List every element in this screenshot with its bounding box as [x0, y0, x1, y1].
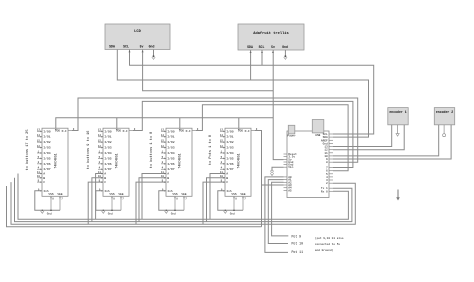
wire Pot 10 to Arduino A1	[268, 180, 288, 244]
svg-text:Adafruit trellis: Adafruit trellis	[253, 31, 288, 36]
svg-text:12: 12	[98, 145, 102, 148]
wire encoder 1 pin B to Arduino	[333, 125, 404, 150]
svg-text:Gnd: Gnd	[108, 212, 113, 216]
svg-text:Rx 0: Rx 0	[321, 190, 328, 193]
svg-text:VSS: VSS	[109, 193, 114, 196]
wire trellis SDA drop	[250, 50, 252, 80]
svg-text:I/O6: I/O6	[104, 162, 112, 166]
svg-text:to buttons 1 to 8: to buttons 1 to 8	[149, 132, 154, 169]
multiplexer IC2: 74HC4051	[98, 128, 136, 201]
svg-text:I/O0: I/O0	[167, 129, 175, 133]
wire IC4 common O-I down to bus line 4 and branch to Arduino A3	[255, 131, 262, 227]
svg-text:14: 14	[220, 134, 224, 137]
svg-text:12: 12	[37, 145, 41, 148]
wire IC2 select A to bus	[96, 174, 103, 220]
ground symbol below IC4	[224, 210, 235, 216]
svg-text:74HC4051: 74HC4051	[115, 153, 119, 168]
svg-text:SDA: SDA	[247, 45, 253, 49]
svg-text:C: C	[167, 180, 169, 184]
svg-text:10: 10	[161, 175, 165, 178]
wire IC3 select B to bus	[139, 178, 166, 222]
svg-text:I/O3: I/O3	[104, 146, 112, 150]
svg-text:13: 13	[161, 129, 165, 132]
svg-text:I/O1: I/O1	[226, 135, 234, 139]
svg-text:Pot 10: Pot 10	[292, 242, 304, 246]
bus line C (Arduino pin2 net)	[11, 182, 355, 224]
svg-text:to buttons 17 to 25: to buttons 17 to 25	[25, 130, 30, 171]
wire trellis SCL drop	[261, 50, 263, 65]
svg-text:O-I: O-I	[245, 130, 250, 133]
multiplexer IC3: 74HC4051	[161, 128, 199, 201]
wire IC1 Inh + VSS + VEE to ground	[35, 191, 61, 211]
svg-text:connected to 5v: connected to 5v	[315, 242, 340, 246]
svg-text:I/O4: I/O4	[167, 151, 175, 155]
svg-text:15: 15	[98, 140, 102, 143]
svg-text:I/O2: I/O2	[43, 140, 51, 144]
svg-text:Power: Power	[287, 135, 296, 138]
svg-text:11: 11	[98, 171, 102, 174]
wire IC2 select C to bus	[88, 182, 103, 224]
svg-text:Pot 9: Pot 9	[292, 235, 302, 239]
wire encoder 2 pin B to Arduino	[333, 125, 451, 159]
ground symbol under encoder 1	[396, 125, 399, 136]
svg-text:(pot 9,10 11 also: (pot 9,10 11 also	[315, 236, 344, 240]
svg-text:I/O6: I/O6	[226, 162, 234, 166]
svg-text:VEE: VEE	[240, 193, 245, 196]
svg-text:2: 2	[326, 182, 328, 185]
note text	[315, 236, 344, 252]
svg-text:13: 13	[37, 129, 41, 132]
multiplexer IC1: 74HC4051	[37, 128, 75, 201]
multiplexer IC4: 74HC4051	[220, 128, 258, 201]
svg-text:VEE: VEE	[57, 193, 62, 196]
wire IC2 select B to bus	[92, 178, 103, 222]
svg-text:Gnd: Gnd	[47, 212, 52, 216]
wire encoder 1 pin A to Arduino	[333, 125, 392, 147]
svg-text:SCL: SCL	[123, 45, 129, 49]
Arduino Uno board	[287, 120, 329, 198]
svg-text:O-I: O-I	[123, 130, 128, 133]
wire IC4 Inh + VSS + VEE to ground	[218, 191, 244, 211]
svg-text:I/O0: I/O0	[104, 129, 112, 133]
ground symbol below IC2	[102, 210, 113, 216]
svg-text:I/O4: I/O4	[43, 151, 51, 155]
svg-text:15: 15	[37, 140, 41, 143]
svg-text:encoder 2: encoder 2	[436, 110, 453, 114]
svg-text:15: 15	[161, 140, 165, 143]
svg-text:5v: 5v	[140, 45, 144, 49]
svg-text:13: 13	[220, 129, 224, 132]
svg-text:74HC4051: 74HC4051	[237, 153, 241, 168]
ground symbol below LCD Gnd pin	[152, 50, 155, 60]
wire net SDA: LCD SDA to trellis SDA to Arduino SDA riser	[117, 50, 368, 138]
svg-text:I/O3: I/O3	[43, 146, 51, 150]
svg-text:I/O3: I/O3	[226, 146, 234, 150]
svg-text:14: 14	[161, 134, 165, 137]
svg-text:10: 10	[220, 175, 224, 178]
svg-text:11: 11	[37, 171, 41, 174]
wire VDD tap IC3	[179, 118, 181, 128]
wire IC1 common O-I to Arduino pin 8	[72, 98, 358, 162]
svg-text:SDA: SDA	[109, 45, 115, 49]
encoder 1	[388, 108, 408, 125]
svg-text:11: 11	[161, 171, 165, 174]
wire encoder 2 pin A to Arduino	[333, 125, 439, 156]
svg-text:O-I: O-I	[186, 130, 191, 133]
wire VDD rail (5v) feeding mux VDD pins	[56, 118, 273, 128]
wire IC3 common O-I to Arduino pin 6	[196, 105, 348, 171]
Arduino right-side pins	[321, 133, 333, 193]
svg-text:13: 13	[98, 129, 102, 132]
svg-text:74HC4051: 74HC4051	[178, 153, 182, 168]
svg-text:O-I: O-I	[62, 130, 67, 133]
svg-text:14: 14	[98, 134, 102, 137]
wire IC3 select C to bus	[136, 182, 166, 224]
wire IC3 Inh + VSS + VEE to ground	[159, 191, 185, 211]
wire net 5V: LCD 5v down and right to main 5v riser	[142, 50, 274, 91]
svg-text:I/O5: I/O5	[167, 156, 175, 160]
svg-text:encoder 1: encoder 1	[389, 110, 406, 114]
ground symbol below trellis Gnd pin	[284, 50, 287, 59]
svg-text:Gnd: Gnd	[282, 45, 288, 49]
svg-text:I/O5: I/O5	[104, 156, 112, 160]
svg-text:I/O2: I/O2	[226, 140, 234, 144]
svg-text:A5: A5	[288, 189, 292, 192]
svg-text:I/O3: I/O3	[167, 146, 175, 150]
svg-text:and Ground): and Ground)	[315, 248, 334, 252]
bus line 4	[7, 186, 262, 227]
svg-text:12: 12	[220, 145, 224, 148]
svg-text:I/O1: I/O1	[43, 135, 51, 139]
svg-text:to buttons 9 to 16: to buttons 9 to 16	[86, 131, 91, 170]
svg-text:10: 10	[98, 175, 102, 178]
ground symbol under encoder 2	[443, 125, 446, 137]
svg-text:USB: USB	[315, 134, 320, 137]
svg-text:VSS: VSS	[172, 193, 177, 196]
wire Pot 11 to Arduino A0	[265, 177, 288, 253]
wire VDD tap IC4	[238, 118, 240, 128]
svg-text:VEE: VEE	[181, 193, 186, 196]
svg-text:Gnd: Gnd	[171, 212, 176, 216]
svg-text:Gnd: Gnd	[149, 45, 155, 49]
svg-text:I/O6: I/O6	[167, 162, 175, 166]
svg-text:C: C	[43, 180, 45, 184]
svg-text:SCL: SCL	[259, 45, 265, 49]
svg-text:5v: 5v	[271, 45, 275, 49]
wire IC2 common O-I to Arduino pin 7	[133, 101, 353, 167]
bus line A (Arduino Rx0 net)	[18, 174, 348, 220]
wire IC4 select A to bus	[210, 174, 225, 220]
wire net SCL: LCD SCL to trellis SCL to Arduino SCL riser	[128, 50, 373, 135]
wire Arduino Gnd to ground symbol	[270, 167, 283, 175]
svg-text:8: 8	[326, 161, 328, 164]
ground symbol below IC1	[41, 210, 52, 216]
svg-text:12: 12	[161, 145, 165, 148]
svg-text:VEE: VEE	[118, 193, 123, 196]
svg-text:I/O2: I/O2	[104, 140, 112, 144]
svg-text:I/O6: I/O6	[43, 162, 51, 166]
svg-text:VSS: VSS	[48, 193, 53, 196]
bus line B (Arduino Tx1 net)	[15, 178, 352, 222]
svg-text:I/O4: I/O4	[104, 151, 112, 155]
svg-text:to Pots 1 to 8: to Pots 1 to 8	[209, 135, 213, 165]
svg-text:I/O0: I/O0	[43, 129, 51, 133]
svg-text:Gnd: Gnd	[230, 212, 235, 216]
Arduino left-side pins	[284, 153, 298, 192]
svg-text:15: 15	[220, 140, 224, 143]
svg-text:Pot 11: Pot 11	[292, 250, 304, 254]
svg-text:74HC4051: 74HC4051	[54, 153, 58, 168]
svg-text:C: C	[226, 180, 228, 184]
svg-text:I/O0: I/O0	[226, 129, 234, 133]
wire IC4 select C to bus	[203, 182, 225, 224]
svg-text:Vin: Vin	[288, 165, 293, 169]
svg-text:I/O1: I/O1	[104, 135, 112, 139]
svg-text:I/O5: I/O5	[226, 156, 234, 160]
wire net 5V riser: trellis 5v down to Arduino 5v pin	[272, 50, 284, 160]
wire IC4 select B to bus	[207, 178, 226, 222]
svg-text:I/O2: I/O2	[167, 140, 175, 144]
svg-text:10: 10	[37, 175, 41, 178]
svg-text:I/O1: I/O1	[167, 135, 175, 139]
svg-text:I/O5: I/O5	[43, 156, 51, 160]
svg-text:14: 14	[37, 134, 41, 137]
wire Pot 9 to Arduino A2	[272, 182, 289, 236]
ground symbol below IC3	[165, 210, 176, 216]
wire VDD tap IC2	[116, 118, 118, 128]
encoder 2	[434, 108, 454, 125]
svg-text:C: C	[104, 180, 106, 184]
stray ground arrow below encoder 1	[396, 190, 400, 201]
svg-text:I/O4: I/O4	[226, 151, 234, 155]
wire IC2 Inh + VSS + VEE to ground	[96, 191, 122, 211]
svg-text:VSS: VSS	[231, 193, 236, 196]
wire IC3 select A to bus	[142, 174, 166, 220]
svg-text:LCD: LCD	[134, 30, 141, 34]
svg-text:11: 11	[220, 171, 224, 174]
Adafruit trellis module U_TRELLIS	[238, 24, 304, 50]
LCD module U_LCD	[105, 24, 170, 50]
